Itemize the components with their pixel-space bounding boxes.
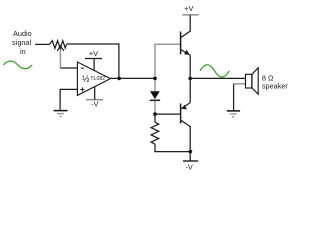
svg-text:signal: signal	[12, 38, 31, 47]
svg-text:-V: -V	[91, 100, 98, 109]
svg-text:½: ½	[82, 74, 90, 84]
svg-text:-V: -V	[185, 162, 192, 171]
svg-text:TL082: TL082	[90, 76, 105, 82]
svg-text:Audio: Audio	[13, 29, 32, 38]
svg-text:speaker: speaker	[262, 82, 289, 91]
svg-text:+V: +V	[89, 49, 98, 58]
svg-text:+V: +V	[184, 4, 193, 13]
svg-text:in: in	[20, 47, 26, 56]
